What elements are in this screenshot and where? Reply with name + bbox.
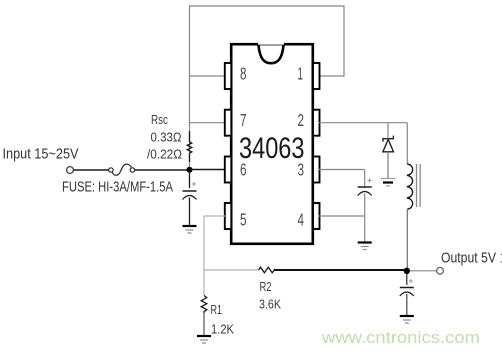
svg-text:3: 3: [298, 160, 305, 180]
svg-text:FUSE: HI-3A/MF-1.5A: FUSE: HI-3A/MF-1.5A: [62, 180, 173, 196]
node output junction: [404, 268, 410, 274]
pin pad 4: [313, 203, 320, 229]
pin pad 8: [225, 63, 232, 89]
svg-text:/0.22Ω: /0.22Ω: [147, 148, 182, 162]
wire: inductor to output node: [406, 209, 408, 271]
diode D1 (zener): [383, 136, 394, 152]
wire: pin 8 to feed line: [190, 75, 226, 77]
wire: Vin node to pin 6: [190, 169, 226, 171]
pin pad 3: [313, 157, 320, 183]
svg-text:8: 8: [240, 64, 247, 84]
pin pad 5: [225, 203, 232, 229]
pin pad 7: [225, 110, 232, 136]
inductor L1: [407, 164, 413, 209]
svg-text:1.2K: 1.2K: [211, 322, 234, 337]
resistor R2: [259, 267, 275, 273]
capacitor C_in: [183, 191, 197, 200]
wire: input terminal to fuse: [74, 169, 109, 171]
svg-text:5: 5: [240, 210, 247, 230]
svg-text:6: 6: [240, 160, 247, 180]
capacitor CT polarity +: [367, 178, 371, 182]
wire: output node down to output capacitor: [406, 274, 408, 285]
inductor core bars: [417, 164, 421, 207]
wire: Vin node down to input capacitor: [189, 172, 191, 188]
svg-text:34063: 34063: [239, 132, 305, 165]
svg-text:Rsc: Rsc: [151, 113, 168, 127]
ground (diode): [381, 179, 395, 187]
wire: R2 to output node: [274, 269, 407, 271]
ground (timing capacitor / pin 4): [358, 243, 372, 250]
svg-text:0.33Ω: 0.33Ω: [151, 131, 182, 145]
fuse F1: [109, 164, 135, 175]
svg-text:1: 1: [298, 64, 304, 84]
capacitor CT: [358, 187, 372, 196]
wire: CT to ground, joined by pin 4: [364, 194, 366, 243]
wire: pin 3 to timing capacitor: [319, 169, 365, 171]
ground (input capacitor): [183, 226, 197, 233]
wire: pin 5 to feedback line: [204, 216, 225, 296]
wire: fuse to Vin node: [135, 169, 190, 171]
wire: output node to output terminal: [410, 270, 437, 272]
svg-text:4: 4: [298, 210, 305, 230]
capacitor C_out polarity +: [409, 279, 413, 283]
svg-text:Input 15~25V: Input 15~25V: [3, 147, 79, 163]
ground (output capacitor): [400, 316, 414, 323]
wire: diode anode to ground: [387, 123, 389, 139]
output terminal: [437, 267, 444, 274]
resistor R1: [201, 296, 207, 314]
svg-text:Output 5V: Output 5V: [441, 251, 496, 267]
wire: feedback line to R2: [204, 269, 259, 271]
svg-text:R2: R2: [260, 279, 272, 294]
capacitor C_in polarity +: [192, 182, 196, 186]
wire: down to timing capacitor: [364, 170, 366, 189]
wire: R1 to ground: [203, 313, 205, 336]
svg-text:2: 2: [298, 110, 305, 130]
node Vin junction: [187, 167, 193, 173]
input terminal: [67, 167, 74, 174]
svg-text:www.cntronics.com: www.cntronics.com: [321, 328, 480, 347]
capacitor C_out: [400, 288, 414, 297]
wire: pin 2 to switch node: [319, 122, 407, 124]
wire: C_in to ground: [189, 198, 191, 226]
wire: pin 7 to feed line: [190, 122, 226, 124]
IC notch: [259, 45, 284, 63]
pin pad 6: [225, 157, 232, 183]
svg-text:3.6K: 3.6K: [259, 297, 281, 312]
IC U1 34063 body: [231, 44, 313, 244]
svg-text:7: 7: [240, 110, 247, 130]
resistor Rsc on feed line: [187, 131, 192, 162]
pin pad 2: [313, 110, 320, 136]
wire: pin 4 to CT ground line: [319, 215, 365, 217]
wire: top loop from feed line to pin 1: [190, 6, 345, 170]
svg-text:R1: R1: [211, 302, 223, 317]
pin pad 1: [313, 63, 320, 89]
wire: switch node down to inductor L1: [406, 123, 408, 164]
wire: C_out to ground: [406, 294, 408, 316]
ground (R1): [197, 336, 211, 343]
